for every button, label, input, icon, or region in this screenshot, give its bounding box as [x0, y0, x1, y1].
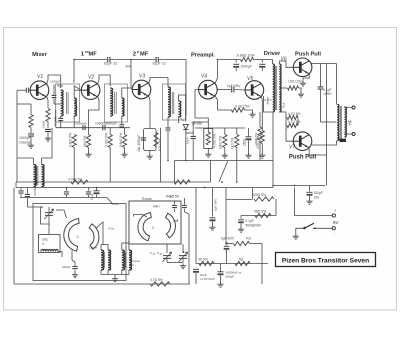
wire: [252, 188, 254, 200]
wire: [212, 188, 214, 217]
wire bus step: [210, 161, 212, 183]
IF transformer T3 secondary winding: [178, 101, 180, 117]
svg-text:Driver: Driver: [264, 51, 281, 57]
wire: [74, 89, 81, 91]
wire V2 stage node row: [56, 127, 130, 129]
wire V5 emitter: [261, 96, 262, 131]
wire: [124, 148, 126, 153]
wire to speaker terminal 1: [344, 106, 352, 109]
electrolytic 10uF rail: [94, 190, 100, 192]
wire gang 2 left lead: [134, 215, 148, 218]
gang capacitor rotor 2: [138, 213, 151, 241]
capacitor V3 emitter bypass 40uF: [141, 138, 146, 140]
resistor V3 emitter: [154, 133, 158, 147]
IF transformer T3 primary winding: [168, 87, 170, 117]
ground V6 emitter: [300, 81, 306, 86]
wire: [167, 78, 169, 88]
wire driver ct riser: [272, 112, 274, 161]
wire V3 emitter: [149, 96, 151, 104]
wire: [30, 137, 32, 143]
wire: [186, 132, 193, 134]
capacitor 1200pF: [52, 95, 57, 97]
wire: [193, 122, 208, 133]
oscillator tank winding a: [101, 250, 104, 270]
electrolytic pot node: [224, 245, 230, 247]
capacitor rail bypass 2: [64, 192, 69, 194]
resistor V5 emitter 470: [260, 131, 264, 144]
capacitor 82pF neutralizing 1: [108, 57, 110, 62]
ground 5uF: [209, 225, 215, 230]
svg-text:22kΩ: 22kΩ: [42, 120, 46, 128]
terminal speaker top: [352, 106, 355, 109]
svg-text:500pF: 500pF: [226, 275, 235, 279]
resistor bias upper 4.7Ω: [287, 115, 298, 119]
svg-text:10μF: 10μF: [186, 137, 190, 144]
svg-text:1kΩ 5%: 1kΩ 5%: [83, 136, 87, 147]
transistor V3 second IF: [132, 80, 151, 99]
capacitor series to osc: [25, 194, 30, 196]
wire: [174, 161, 176, 183]
svg-text:Pizen Bros Transiitor Seven: Pizen Bros Transiitor Seven: [282, 258, 369, 265]
junction top rail b: [130, 59, 132, 61]
wire: [109, 148, 111, 183]
junction: [221, 181, 223, 183]
gang capacitor stator 2: [166, 213, 176, 238]
wire left drop of network: [195, 188, 197, 264]
wire into T1 primary: [60, 75, 62, 88]
wire: [121, 243, 123, 250]
ground 10000uF: [217, 282, 223, 287]
driver transformer secondary winding: [279, 64, 281, 112]
IF transformer T1 secondary winding: [74, 98, 76, 116]
svg-text:Rouge: Rouge: [142, 197, 152, 201]
transistor V2 first IF: [81, 81, 100, 100]
svg-text:Noir: Noir: [282, 102, 286, 108]
svg-text:4.7kΩ 5%: 4.7kΩ 5%: [68, 178, 82, 182]
core T3 line 1: [171, 92, 173, 114]
svg-text:6.3Ω 5%: 6.3Ω 5%: [158, 139, 162, 151]
wire secondary top to V6 base: [279, 61, 293, 67]
svg-text:Mixer: Mixer: [32, 52, 48, 58]
wire: [66, 188, 68, 191]
wire: [207, 149, 209, 153]
wire V2 collector to T2: [98, 75, 111, 85]
resistor 5 ohm lower: [235, 261, 250, 265]
capacitor detector 10uF: [191, 136, 196, 138]
wire: [235, 68, 237, 71]
svg-text:A.Cu: A.Cu: [108, 227, 115, 231]
wire: [220, 264, 222, 272]
wire V7 emitter riser: [309, 149, 326, 155]
wire V1 collector to T1: [47, 75, 61, 85]
capacitor T3 tuning: [166, 128, 171, 130]
wire V2 emitter: [98, 96, 99, 104]
capacitor: [58, 118, 63, 120]
wire: [192, 133, 194, 136]
resistor 6.8k collector load: [241, 57, 254, 61]
wire: [128, 270, 130, 275]
wire: [89, 104, 100, 135]
svg-text:1000pF: 1000pF: [106, 122, 117, 126]
resistor bottom 4.7: [150, 282, 170, 286]
core line: [103, 252, 105, 268]
junction rail g: [294, 185, 296, 187]
wire: [226, 243, 233, 245]
junction rail c: [167, 160, 169, 162]
resistor 3 ohm: [199, 261, 214, 265]
antenna coupling winding a: [122, 250, 125, 270]
wire: [195, 127, 225, 129]
svg-text:4.7Ω 5%: 4.7Ω 5%: [288, 112, 300, 116]
wire: [149, 151, 151, 155]
wire: [286, 125, 287, 127]
wire secondary bottom to V7 base: [279, 112, 293, 141]
wire primary bottom to V5 collector: [264, 96, 273, 112]
wire V3 collector to T3: [149, 78, 169, 84]
svg-text:+1.5V 6/9V: +1.5V 6/9V: [200, 277, 216, 281]
junction rail d: [185, 160, 187, 162]
capacitor: [318, 87, 324, 89]
core output line 2: [340, 106, 342, 139]
oscillator coil winding: [41, 249, 58, 251]
svg-text:Rge: Rge: [57, 84, 63, 88]
svg-text:100μF: 100μF: [314, 191, 323, 195]
electrolytic capacitor 25uF: [246, 136, 252, 138]
transistor V7 push pull lower: [293, 132, 312, 151]
gang capacitor stator 1: [89, 224, 99, 249]
wire to V5 base: [235, 89, 245, 92]
wire: [28, 198, 44, 207]
wire pot feed: [225, 188, 227, 244]
svg-text:0μF 6/9V: 0μF 6/9V: [221, 237, 235, 241]
ground volume pot: [205, 152, 211, 157]
wire: [60, 116, 62, 118]
svg-text:C.: C.: [42, 242, 45, 246]
wire T1 secondary to V2 base: [74, 86, 81, 98]
ground 25uF: [245, 153, 251, 158]
ground 100uF: [306, 199, 312, 204]
wire: [96, 188, 98, 191]
wire: [53, 85, 55, 95]
resistor bias lower 4.7Ω: [287, 123, 298, 127]
wire bottom left riser: [13, 188, 15, 285]
wire: [207, 122, 209, 132]
wire V4 emitter: [215, 96, 217, 104]
IF transformer T1 shield box: [56, 84, 80, 122]
svg-text:C.↓: C.↓: [132, 263, 137, 267]
wire: [261, 60, 263, 63]
electrolytic capacitor 1000uF rail 1: [233, 63, 239, 65]
svg-text:5μF 6/9V: 5μF 6/9V: [214, 199, 218, 211]
svg-text:C: C: [77, 235, 80, 239]
svg-text:V5: V5: [247, 76, 253, 82]
wire: [47, 133, 49, 137]
svg-text:Push Pull: Push Pull: [295, 52, 321, 58]
svg-text:HF: HF: [348, 119, 353, 125]
wire to antenna circuit: [107, 198, 119, 205]
ground V1 bias: [28, 143, 34, 148]
wire: [320, 64, 322, 87]
wire: [224, 148, 226, 154]
wire AGC lower line: [20, 197, 107, 199]
transistor V4 preamp: [199, 80, 218, 99]
wire: [107, 245, 109, 251]
core driver line 1: [275, 66, 277, 110]
capacitor V1 base series: [26, 88, 28, 93]
ground bias: [298, 92, 304, 97]
capacitor series row 2: [83, 125, 85, 130]
svg-text:V7: V7: [289, 145, 295, 151]
V3 emitter RC network loop: [144, 129, 157, 151]
transistor V6 push pull upper: [293, 58, 312, 77]
svg-text:0.47s: 0.47s: [264, 98, 272, 102]
resistor V2 base lower 5.6k: [72, 135, 76, 148]
wire: [41, 158, 43, 165]
svg-text:1: 1: [81, 52, 84, 58]
capacitor 10000pF coupling: [103, 125, 105, 130]
wire bus upper branch: [175, 160, 274, 162]
wire: [17, 157, 34, 159]
svg-text:V2: V2: [88, 75, 94, 81]
polarity blob: [340, 139, 347, 142]
svg-text:56Ω 5%: 56Ω 5%: [254, 210, 266, 214]
wire V6 emitter: [303, 74, 309, 82]
svg-text:4.7Ω 5%: 4.7Ω 5%: [150, 278, 163, 282]
transistor V1 mixer: [30, 81, 49, 100]
svg-text:2: 2: [133, 52, 136, 58]
output transformer primary winding: [337, 105, 339, 141]
wire: [245, 110, 253, 112]
wire: [109, 75, 111, 86]
wire: [261, 264, 263, 285]
wire: [192, 140, 194, 161]
resistor centre tap bias 10Ω: [288, 86, 299, 90]
wire switch lead: [313, 227, 332, 229]
wire: [297, 118, 299, 126]
wire: [149, 104, 151, 129]
svg-text:4.7kΩ 5%: 4.7kΩ 5%: [213, 134, 217, 148]
svg-text:10kΩ 5%: 10kΩ 5%: [219, 136, 223, 149]
junction top rail: [217, 59, 219, 61]
wire: [226, 250, 228, 264]
capacitor rail bypass 3: [86, 192, 91, 194]
wire V4 base: [195, 90, 199, 100]
svg-text:470Ω 5%: 470Ω 5%: [254, 132, 258, 145]
wire: [53, 99, 55, 104]
wire: [167, 117, 169, 127]
svg-text:6.8kΩ 10%: 6.8kΩ 10%: [237, 54, 255, 58]
core line: [124, 252, 126, 268]
resistor detector volume box: [204, 129, 213, 149]
wire: [60, 121, 62, 128]
core T1 line 2: [67, 92, 69, 114]
wire: [73, 148, 75, 183]
wire: [121, 270, 123, 275]
svg-text:2μF 6/9V: 2μF 6/9V: [227, 84, 241, 88]
shield box tuning gang 1: [33, 204, 126, 281]
wire: [309, 196, 311, 199]
capacitor: [182, 205, 187, 207]
wire: [166, 258, 168, 262]
svg-text:4.7kΩ 5%: 4.7kΩ 5%: [105, 133, 109, 147]
wire: [259, 112, 261, 127]
svg-text:6.8kΩ 5%: 6.8kΩ 5%: [119, 133, 123, 147]
wire: [54, 103, 61, 105]
wire V7 collector to output transformer: [312, 141, 337, 146]
oscillator tank winding b: [108, 250, 111, 270]
resistor decoupling AGC: [174, 180, 190, 184]
wire V6 collector to output transformer: [309, 61, 336, 64]
ground V4 emitter resistor: [249, 112, 255, 117]
wire top rail left span: [74, 59, 107, 61]
wire: [184, 198, 186, 205]
ground V3 emitter: [147, 154, 153, 159]
svg-text:820Ω 5%: 820Ω 5%: [252, 193, 266, 197]
wire: [47, 122, 49, 129]
junction V4 collector: [217, 89, 219, 91]
core line: [36, 166, 38, 185]
trimmer capacitor padding: [45, 213, 53, 216]
svg-text:82pF 22: 82pF 22: [153, 62, 166, 66]
wire battery positive feed: [294, 188, 296, 216]
wire: [174, 201, 176, 205]
svg-text:10μF: 10μF: [90, 193, 94, 200]
svg-text:V3: V3: [139, 74, 145, 80]
junction: [204, 187, 206, 189]
IF transformer T2 shield box: [105, 84, 128, 122]
electrolytic capacitor rail 2: [259, 63, 265, 65]
svg-text:V1: V1: [37, 74, 43, 80]
wire: [27, 188, 29, 194]
svg-text:82pF 22: 82pF 22: [104, 62, 117, 66]
wire secondary centre tap: [279, 87, 287, 89]
resistor 820: [254, 197, 274, 201]
wire: [96, 195, 98, 198]
wire: [15, 182, 17, 188]
wire gang1 to osc winding: [96, 222, 104, 245]
svg-text:10000pF: 10000pF: [75, 122, 87, 126]
wire: [30, 128, 32, 134]
wire: [259, 140, 261, 161]
electrolytic capacitor 0.1uF fb: [238, 219, 244, 221]
svg-text:0.1μF: 0.1μF: [246, 219, 254, 223]
wire trimmer to gang 1: [56, 210, 67, 218]
wire: [17, 103, 31, 105]
wire: [42, 128, 53, 158]
resistor V2 emitter 1k: [86, 135, 90, 148]
ground divider: [222, 153, 228, 158]
ground antenna windings: [112, 277, 118, 282]
wire: [100, 245, 102, 251]
wire: [48, 207, 50, 213]
junction trimmer: [183, 251, 185, 253]
wire: [220, 275, 222, 282]
svg-text:15V: 15V: [314, 196, 321, 200]
svg-text:1000μF: 1000μF: [241, 65, 252, 69]
wire V1 base lead: [29, 89, 30, 91]
terminal speaker bottom: [352, 133, 355, 136]
resistor divider 1k: [235, 135, 239, 148]
wire: [128, 243, 130, 250]
resistor feedback 470: [258, 127, 262, 140]
wire trimmer join: [167, 261, 183, 263]
svg-text:≈6/9V: ≈6/9V: [323, 92, 332, 96]
wire: [185, 130, 187, 161]
wire to battery terminal: [295, 215, 333, 217]
IF transformer T1 primary winding: [61, 90, 63, 116]
core line 2: [37, 166, 39, 185]
svg-text:340pF: 340pF: [62, 265, 71, 269]
wire V4 collector riser: [215, 60, 217, 84]
wire: [167, 131, 169, 161]
title box Pizon Bros Transistor Seven: [276, 253, 376, 267]
IF transformer T2 secondary winding: [122, 98, 124, 116]
diode detector: [183, 124, 188, 129]
wire: [109, 128, 111, 135]
svg-text:MF: MF: [140, 52, 149, 58]
wire: [261, 68, 263, 71]
wire: [88, 148, 90, 153]
wire: [184, 209, 186, 212]
wire bus to supply: [273, 185, 325, 187]
IF transformer T2 primary winding: [110, 88, 112, 116]
wire: [236, 148, 238, 183]
resistor V3 base lower 6.8k: [122, 135, 126, 148]
resistor 56: [255, 213, 271, 217]
ground gang 1: [72, 273, 78, 278]
transistor V5 driver: [245, 81, 264, 100]
driver transformer primary winding: [273, 64, 275, 112]
wire trimmer loop: [41, 207, 50, 224]
wire: [185, 212, 190, 214]
electrolytic 10000uF: [218, 271, 224, 273]
svg-text:4nF≈: 4nF≈: [153, 205, 160, 209]
wire: [17, 89, 26, 91]
wire rail into driver transformer: [272, 60, 274, 65]
wire V1 emitter: [47, 96, 49, 108]
junction pot: [225, 242, 227, 244]
capacitor gang padder: [72, 266, 77, 268]
wire: [194, 100, 196, 118]
wire fb row link: [226, 199, 253, 201]
terminal battery positive: [332, 214, 335, 217]
wire: [33, 158, 35, 165]
wire: [240, 216, 242, 219]
svg-text:40μ 1000μF: 40μ 1000μF: [137, 135, 141, 152]
resistor V1 bias 10k: [29, 115, 33, 128]
svg-text:5.6kΩ 5%: 5.6kΩ 5%: [69, 133, 73, 147]
capacitor: [172, 205, 177, 207]
trimmer capacitor antenna 2: [179, 256, 187, 259]
svg-text:3Ω 5%: 3Ω 5%: [198, 258, 208, 262]
wire: [30, 104, 32, 115]
resistor V3 base upper 4.7k: [108, 135, 112, 148]
wire T2 secondary to V3 base: [122, 88, 132, 98]
trimmer capacitor antenna 1: [163, 256, 171, 259]
svg-text:4nF: 4nF: [169, 195, 174, 199]
wire: [236, 128, 238, 135]
wire rail drop to V3 node: [130, 60, 132, 89]
svg-text:5000pF/8V: 5000pF/8V: [246, 224, 262, 228]
wire top rail mid span: [111, 59, 156, 61]
wire switch to ground: [296, 228, 305, 234]
junction rail e: [236, 181, 238, 183]
wire: [20, 188, 22, 190]
wire: [250, 244, 263, 264]
svg-text:4nF: 4nF: [126, 65, 132, 69]
svg-text:4.7kΩ 5%: 4.7kΩ 5%: [235, 105, 249, 109]
wire: [224, 128, 226, 135]
